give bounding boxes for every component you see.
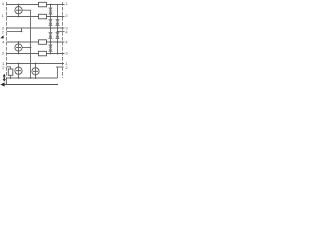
- PE bottom line: [3, 84, 58, 86]
- gdt G2: [15, 44, 22, 51]
- wire rail 8 left stub into varistor: [7, 67, 11, 69]
- gdt G1 leads: [18, 5, 20, 17]
- resistor box R4: [39, 51, 47, 56]
- wire rail 8 right stub: [56, 66, 64, 68]
- gdt2 centre electrode lead: [22, 47, 30, 49]
- diode pair A1: [49, 8, 52, 14]
- wire rail 3: [7, 27, 65, 29]
- wire rail 1: [7, 4, 65, 6]
- gdt G4: [32, 68, 39, 75]
- diode pair A4: [49, 45, 52, 51]
- wire rail 4 right stub: [58, 30, 65, 32]
- wire rail 4 left stub: [7, 28, 22, 31]
- diode chain B vertical: [57, 5, 59, 54]
- gdt G2 leads: [18, 42, 20, 54]
- gdt G3 leads: [18, 64, 20, 79]
- diode pair B1: [56, 19, 59, 25]
- right device border (dashed): [62, 2, 64, 78]
- junction dots: [10, 4, 59, 79]
- left mid arrow mark: [0, 35, 4, 38]
- gdt G4 leads: [35, 64, 37, 79]
- wire rail 5: [7, 41, 65, 43]
- diode chain A vertical: [50, 5, 52, 54]
- diode pair B2: [56, 32, 59, 38]
- wire rail 7: [7, 63, 65, 65]
- diode pair A3: [49, 32, 52, 38]
- varistor box V1 (vertical, bottom left): [8, 69, 13, 75]
- wire earth drop to PE line: [5, 78, 7, 85]
- resistor box R1: [39, 2, 47, 7]
- earth collector vertical: [22, 10, 30, 78]
- surge double arrow: [3, 74, 6, 82]
- left device border (dashed): [6, 2, 8, 85]
- resistor box R3: [39, 40, 47, 45]
- gdt G3: [15, 67, 22, 74]
- resistor box R2: [39, 14, 47, 18]
- gdt G1: [15, 7, 22, 14]
- diode pair A2: [49, 19, 52, 25]
- wire rail 2: [7, 16, 65, 18]
- earth rail riser (right): [57, 67, 59, 78]
- PE arrowhead: [0, 82, 4, 86]
- varistor V1 bottom lead: [10, 75, 12, 78]
- earth rail: [7, 77, 58, 79]
- wire rail 6: [7, 53, 65, 55]
